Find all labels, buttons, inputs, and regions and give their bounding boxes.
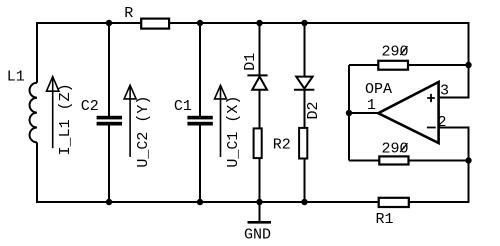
wire D2 branch xyxy=(304,23,306,202)
svg-text:290: 290 xyxy=(382,141,409,158)
svg-text:R: R xyxy=(124,5,133,22)
diode D2 xyxy=(294,77,314,90)
svg-text:R1: R1 xyxy=(376,211,394,228)
ground xyxy=(248,221,272,224)
op-amp minus input mark xyxy=(427,127,436,129)
node C1 bottom xyxy=(197,199,203,205)
resistor R2 xyxy=(254,128,262,158)
inductor L1 xyxy=(30,83,37,143)
op-amp U1 OPA xyxy=(378,82,438,143)
wire bottom rail, right-bottom rail and pin2 stub xyxy=(37,128,469,203)
capacitor C2 xyxy=(97,116,122,126)
node pin 1 xyxy=(346,110,352,116)
resistor 290 bottom xyxy=(379,156,408,164)
node C1 top xyxy=(197,20,203,26)
wire D1/R2 branch xyxy=(259,23,261,202)
svg-text:L1: L1 xyxy=(7,69,25,86)
wire C2 branch xyxy=(108,23,110,202)
svg-text:2: 2 xyxy=(438,114,447,131)
svg-text:U_C1 (X): U_C1 (X) xyxy=(225,96,242,168)
node C2 bottom xyxy=(106,199,112,205)
wire top rail, left rail, right-top rail and pin3 stub xyxy=(37,23,469,98)
node ground xyxy=(256,199,262,205)
label 290 top xyxy=(382,44,409,61)
svg-text:290: 290 xyxy=(382,44,409,61)
wire feedback vertical at node 1 xyxy=(348,65,350,161)
svg-text:R2: R2 xyxy=(273,137,291,154)
svg-text:3: 3 xyxy=(440,82,449,99)
svg-text:U_C2 (Y): U_C2 (Y) xyxy=(135,96,152,168)
diode D1 xyxy=(247,75,267,89)
resistor 290 top xyxy=(378,61,408,70)
resistor on D2 branch xyxy=(299,128,307,159)
node D1 top xyxy=(256,20,262,26)
current arrow I_L1 xyxy=(47,77,59,149)
resistor R xyxy=(141,19,169,29)
svg-text:1: 1 xyxy=(367,97,376,114)
capacitor C1 xyxy=(187,116,212,126)
node D2 top xyxy=(301,20,307,26)
svg-text:D2: D2 xyxy=(305,101,322,119)
svg-text:OPA: OPA xyxy=(365,81,392,98)
op-amp plus input mark xyxy=(427,94,435,102)
wire C1 branch xyxy=(199,23,201,202)
label 290 bottom xyxy=(382,141,409,158)
wire top feedback resistor leads xyxy=(349,64,469,66)
svg-text:GND: GND xyxy=(244,227,271,244)
wire op-amp pin 1 xyxy=(349,112,378,114)
node feedback top right xyxy=(465,62,471,68)
svg-text:I_L1 (Z): I_L1 (Z) xyxy=(57,83,74,155)
node C2 top xyxy=(106,20,112,26)
svg-text:D1: D1 xyxy=(242,53,259,71)
voltage arrow U_C2 xyxy=(124,85,136,157)
node D2 bottom xyxy=(301,199,307,205)
wire bottom feedback resistor leads xyxy=(349,160,469,162)
node feedback bottom right xyxy=(465,157,471,163)
resistor R1 xyxy=(379,198,409,207)
voltage arrow U_C1 xyxy=(215,85,227,157)
svg-text:C1: C1 xyxy=(174,98,192,115)
svg-text:C2: C2 xyxy=(81,98,99,115)
wire ground stub xyxy=(259,202,261,222)
